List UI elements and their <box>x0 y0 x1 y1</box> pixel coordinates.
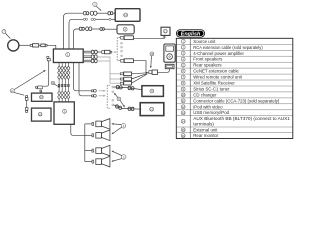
svg-text:CeNET extension cable: CeNET extension cable <box>193 69 239 74</box>
label 11 left <box>10 70 46 95</box>
svg-text:RCA extension cable (sold sepa: RCA extension cable (sold separately) <box>193 45 263 50</box>
svg-text:AUX Bluetooth BB (BLT370) (con: AUX Bluetooth BB (BLT370) (connect to AU… <box>193 116 290 121</box>
twisted speaker wires lower <box>58 91 70 102</box>
legend table <box>176 38 292 138</box>
RCA pair 3 <box>83 59 97 63</box>
gray AV trunk <box>97 57 120 83</box>
label 7 <box>2 30 10 39</box>
terminal jacks lower <box>112 86 114 106</box>
AV plug audio L <box>120 73 147 80</box>
dashed terminal bracket upper <box>117 38 120 61</box>
amplifier box 3 <box>54 102 74 124</box>
svg-text:7: 7 <box>3 30 5 34</box>
CeNET cable to box 10 <box>114 105 142 111</box>
label 11b near twisted wires <box>51 81 60 87</box>
svg-text:terminals): terminals) <box>193 122 214 127</box>
USB plug 2 and cable to dock plug <box>121 59 149 73</box>
CeNET cable to box 9 <box>114 85 142 90</box>
label 5 rear speakers <box>111 151 126 162</box>
svg-text:Rear monitor: Rear monitor <box>193 133 219 138</box>
svg-text:2: 2 <box>94 3 96 7</box>
svg-text:English: English <box>181 31 201 37</box>
svg-text:13: 13 <box>182 111 185 115</box>
svg-text:11: 11 <box>182 99 185 103</box>
Sirius tuner box 9 <box>142 86 164 97</box>
svg-text:iPod with video: iPod with video <box>193 104 223 109</box>
svg-text:10: 10 <box>182 93 185 97</box>
svg-text:4-Channel power amplifier: 4-Channel power amplifier <box>193 51 244 56</box>
wire row1 to AUX BB <box>64 11 116 49</box>
XM Satellite Receiver box 8 <box>117 25 134 34</box>
speaker wire connectors mid <box>58 84 69 86</box>
label 2 <box>93 2 102 11</box>
svg-text:15: 15 <box>182 128 185 132</box>
wire row3 to XM <box>74 27 118 49</box>
svg-text:9: 9 <box>151 89 153 93</box>
svg-text:USB memory/iPod: USB memory/iPod <box>193 110 229 115</box>
legend text <box>193 39 290 138</box>
svg-text:4: 4 <box>123 124 125 128</box>
speaker front L <box>92 119 110 130</box>
wired remote control unit <box>8 40 19 51</box>
svg-text:Front speakers: Front speakers <box>193 57 223 62</box>
dashed terminal bracket lower <box>107 85 110 108</box>
speaker front R <box>92 130 110 141</box>
connector below source unit left <box>35 56 50 93</box>
RCA pair 1 (to AUX dashed) <box>83 50 111 54</box>
svg-text:3: 3 <box>64 109 66 113</box>
inter-box connector cable <box>25 95 28 112</box>
external unit box 15 <box>32 108 52 121</box>
svg-text:5: 5 <box>123 155 125 159</box>
source unit box 1 <box>53 49 83 63</box>
rear monitor box 16 <box>32 93 53 101</box>
speaker tree wiring <box>71 124 92 162</box>
CD changer box 10 <box>140 103 164 116</box>
gray arrows into rear terminals <box>99 90 106 97</box>
iPod with video <box>164 44 175 69</box>
label 6 <box>114 93 125 108</box>
svg-text:12: 12 <box>182 105 185 109</box>
dock plug <box>149 69 170 74</box>
USB plug 1 and cable to 13 <box>121 36 165 40</box>
svg-text:CD changer: CD changer <box>193 92 217 97</box>
svg-text:14: 14 <box>182 120 185 124</box>
USB memory box 13 <box>161 27 170 35</box>
English badge <box>176 29 205 37</box>
wire row2 <box>69 18 115 49</box>
AV plug video <box>120 72 147 76</box>
svg-text:XM Satellite Receiver: XM Satellite Receiver <box>193 81 235 86</box>
terminal jacks upper <box>121 42 123 56</box>
svg-text:Connector cable (CCA-723) (sol: Connector cable (CCA-723) (sold separate… <box>193 98 280 103</box>
svg-text:Rear speakers: Rear speakers <box>193 63 222 68</box>
RCA pair 2 <box>83 55 97 59</box>
AUX Bluetooth BB box 14 <box>115 9 140 22</box>
svg-text:External unit: External unit <box>193 127 218 132</box>
AV plug audio R <box>120 74 147 85</box>
svg-text:8: 8 <box>124 27 126 31</box>
wire remote to source unit <box>19 44 56 50</box>
svg-text:Wired remote control unit: Wired remote control unit <box>193 75 242 80</box>
twisted speaker wires upper <box>58 63 70 92</box>
label 4 front speakers <box>111 123 125 134</box>
gray dashed arrow to aux in <box>112 51 117 53</box>
svg-text:Source unit: Source unit <box>193 39 216 44</box>
speaker rear R <box>92 156 110 167</box>
svg-text:1: 1 <box>67 53 69 57</box>
label 12 <box>150 52 154 68</box>
speaker rear L <box>92 145 110 156</box>
svg-text:16: 16 <box>182 134 185 138</box>
svg-text:Sirius SC-C1 tuner: Sirius SC-C1 tuner <box>193 87 230 92</box>
wires from source bottom right to rear terminals <box>74 63 97 98</box>
legend circled numbers <box>181 39 185 137</box>
